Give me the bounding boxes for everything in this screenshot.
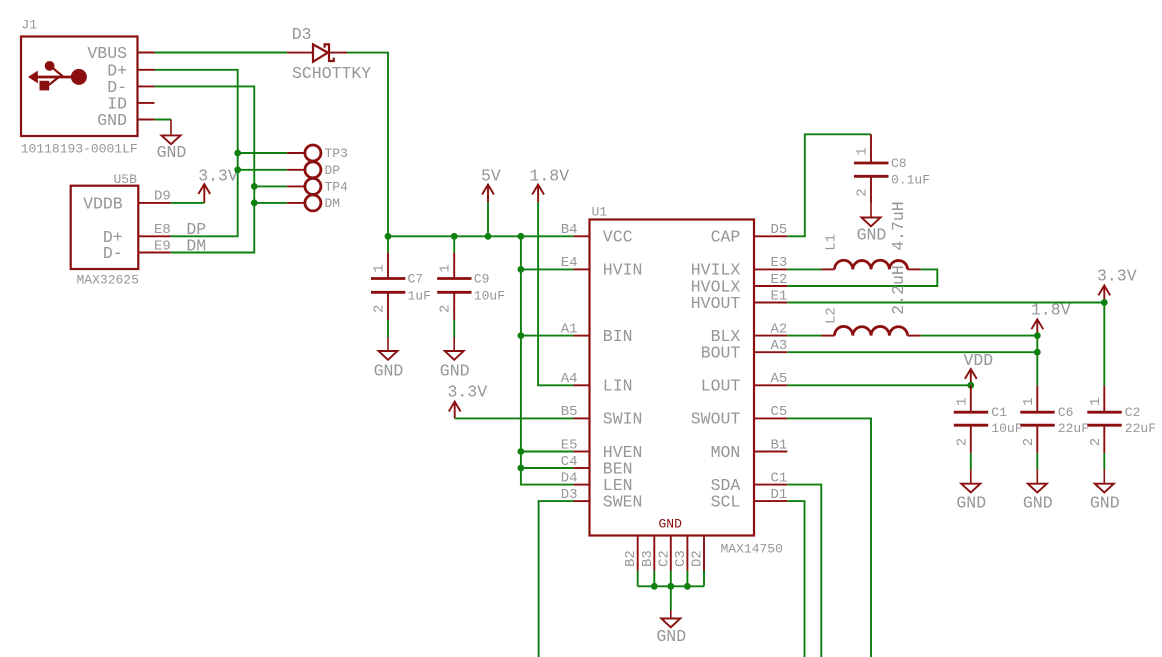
svg-text:LIN: LIN (603, 377, 633, 396)
junction at BEN branch (518, 465, 525, 472)
wire 3.3V rail down to C2 (1103, 303, 1105, 386)
supply symbol 3.3V right (1097, 267, 1137, 303)
connector J1 (21, 18, 155, 157)
svg-text:U1: U1 (592, 205, 608, 220)
svg-text:A1: A1 (561, 321, 578, 337)
svg-text:22uF: 22uF (1125, 421, 1156, 436)
svg-text:D9: D9 (154, 189, 171, 205)
junction bus at C7 (385, 233, 392, 240)
junction gnd bus B3 (651, 583, 658, 590)
svg-text:B4: B4 (561, 222, 578, 238)
wire LOUT to VDD (787, 384, 971, 386)
svg-text:E9: E9 (154, 238, 171, 254)
wire BLX to L2 (787, 335, 821, 337)
wire CAP net D5 to C8 (787, 134, 871, 236)
svg-text:J1: J1 (22, 18, 38, 33)
svg-text:A2: A2 (770, 321, 787, 337)
svg-text:5V: 5V (481, 166, 501, 185)
wire L2 out to 1.8V rail (921, 335, 1038, 337)
svg-text:2.2uH: 2.2uH (889, 265, 908, 315)
svg-text:C1: C1 (991, 405, 1007, 420)
svg-text:3.3V: 3.3V (1097, 267, 1137, 286)
svg-text:MAX14750: MAX14750 (721, 542, 783, 557)
inductor L2 (822, 265, 921, 335)
svg-text:GND: GND (857, 226, 887, 245)
wire SWOUT down (787, 418, 871, 657)
svg-text:SCL: SCL (711, 492, 741, 511)
svg-text:1.8V: 1.8V (530, 166, 570, 185)
svg-text:HVOUT: HVOUT (691, 294, 741, 313)
wire L1 out to HVOLX (787, 269, 937, 286)
wire VBUS from J1 to diode (155, 52, 288, 54)
svg-text:DM: DM (186, 236, 206, 255)
wire branch to BIN (521, 335, 574, 337)
wire 1.8V to U1 LIN (538, 202, 573, 385)
junction gnd bus C3 (684, 583, 691, 590)
wire HVOUT to 3.3V rail (787, 302, 1104, 304)
IC U5B MAX32625 (71, 172, 171, 288)
svg-text:MAX32625: MAX32625 (77, 273, 139, 288)
svg-text:2: 2 (954, 438, 970, 446)
svg-text:VCC: VCC (603, 228, 633, 247)
svg-text:GND: GND (659, 517, 683, 532)
junction 1.8V at BOUT row (1034, 349, 1041, 356)
svg-text:A4: A4 (561, 371, 578, 387)
svg-text:D4: D4 (561, 470, 578, 486)
svg-text:A5: A5 (770, 371, 787, 387)
svg-text:TP3: TP3 (325, 146, 348, 161)
ground symbol under C6 (1023, 469, 1053, 512)
svg-text:GND: GND (97, 111, 127, 130)
ground symbol under U1 (656, 610, 686, 646)
svg-text:B1: B1 (770, 437, 787, 453)
wire SDA down (787, 485, 821, 657)
wire net DP: J1 D+ to U5B D+ (155, 70, 238, 237)
IC U1 MAX14750 (590, 205, 783, 557)
supply symbol 1.8V right (1031, 301, 1071, 336)
svg-text:GND: GND (440, 362, 470, 381)
supply symbol 3.3V at U5B VDDB (198, 166, 238, 203)
svg-text:A3: A3 (770, 338, 787, 354)
svg-text:D1: D1 (770, 487, 787, 503)
svg-text:B2: B2 (623, 550, 639, 567)
svg-text:CAP: CAP (711, 228, 741, 247)
wire branch to HVIN (521, 268, 574, 270)
U1 right pin numbers (770, 222, 787, 503)
svg-text:SWIN: SWIN (603, 410, 643, 429)
U1 left pin names (603, 228, 643, 512)
junction bus at C9 (451, 233, 458, 240)
svg-text:E3: E3 (770, 255, 787, 271)
svg-text:0.1uF: 0.1uF (891, 172, 930, 187)
svg-text:MON: MON (711, 443, 741, 462)
ground symbol under C2 (1090, 469, 1120, 512)
wire SWEN down (539, 501, 574, 657)
svg-text:1uF: 1uF (408, 288, 431, 303)
wire GND bus under U1 (638, 571, 704, 611)
svg-text:DM: DM (325, 196, 341, 211)
svg-text:E1: E1 (770, 288, 787, 304)
ground symbol under C8 (857, 203, 887, 245)
svg-text:4.7uH: 4.7uH (889, 201, 908, 251)
junction 3.3V at HVOUT (1101, 299, 1108, 306)
svg-text:2: 2 (855, 188, 871, 196)
svg-text:GND: GND (956, 494, 986, 513)
junction at HVEN branch (518, 448, 525, 455)
USB logo icon inside J1 (28, 61, 87, 90)
svg-text:E5: E5 (561, 437, 578, 453)
svg-text:SWEN: SWEN (603, 492, 643, 511)
svg-text:L1: L1 (824, 234, 840, 251)
wire HVILX to L1 (787, 268, 821, 270)
svg-text:DP: DP (325, 163, 341, 178)
wire SCL down (787, 501, 804, 657)
ground symbol under J1 (157, 120, 187, 163)
svg-text:GND: GND (157, 143, 187, 162)
wire branch to HVEN (521, 451, 574, 453)
inductor L1 (822, 201, 921, 269)
supply symbol VDD (964, 351, 994, 385)
wire 5V bus to U1 VCC (388, 235, 574, 237)
svg-text:22uF: 22uF (1058, 421, 1089, 436)
svg-text:1: 1 (372, 264, 388, 272)
svg-text:B5: B5 (561, 404, 578, 420)
capacitor C7 (371, 236, 431, 337)
svg-text:D5: D5 (770, 222, 787, 238)
wire 5V net: diode cathode to bus corner (347, 53, 388, 237)
svg-text:2: 2 (1088, 438, 1104, 446)
wire 1.8V rail down to C6 (1036, 336, 1038, 386)
capacitor C1 (954, 385, 1023, 469)
U1 left pin stubs (574, 236, 590, 501)
svg-text:2: 2 (438, 305, 454, 313)
wire VDDB to 3.3V (171, 202, 205, 204)
svg-text:C4: C4 (561, 454, 578, 470)
svg-text:C5: C5 (770, 404, 787, 420)
svg-text:U5B: U5B (114, 172, 138, 187)
svg-text:10118193-0001LF: 10118193-0001LF (21, 142, 138, 157)
svg-text:VDD: VDD (964, 351, 994, 370)
svg-text:C3: C3 (673, 550, 689, 567)
svg-text:VDDB: VDDB (83, 194, 123, 213)
junction on DP net at DP testpoint (234, 166, 241, 173)
capacitor C6 (1020, 386, 1089, 470)
svg-text:B3: B3 (640, 550, 656, 567)
ground symbol under C1 (956, 469, 986, 512)
wire GND net from J1 (155, 119, 172, 121)
svg-text:GND: GND (1023, 494, 1053, 513)
svg-text:2: 2 (1021, 438, 1037, 446)
capacitor C2 (1087, 386, 1156, 470)
U1 bottom pin stubs B2 B3 C2 C3 D2 (638, 536, 704, 571)
svg-text:GND: GND (1090, 494, 1120, 513)
svg-text:C2: C2 (656, 550, 672, 567)
svg-text:E2: E2 (770, 272, 787, 288)
wire 3.3V to U1 SWIN (455, 417, 574, 419)
junction VDD at LOUT row (967, 382, 974, 389)
junction 1.8V at BLX row (1034, 332, 1041, 339)
svg-text:GND: GND (656, 627, 686, 646)
capacitor C8 (854, 134, 930, 203)
svg-text:SCHOTTKY: SCHOTTKY (292, 64, 371, 83)
svg-text:1: 1 (438, 264, 454, 272)
svg-text:1: 1 (1021, 397, 1037, 405)
svg-text:D3: D3 (561, 487, 578, 503)
svg-text:VBUS: VBUS (87, 44, 127, 63)
svg-text:D-: D- (103, 244, 123, 263)
svg-text:1: 1 (954, 397, 970, 405)
U1 right pin names (691, 228, 741, 512)
wire BOUT to 1.8V rail (787, 351, 1037, 353)
test point TP3 (238, 145, 348, 161)
ground symbol under C9 (440, 338, 470, 381)
supply symbol 5V (481, 166, 501, 236)
junction on DP net at TP3 (234, 150, 241, 157)
diode D3 SCHOTTKY (287, 25, 371, 83)
svg-text:HVIN: HVIN (603, 261, 643, 280)
junction bus at 5V arrow (485, 233, 492, 240)
capacitor C9 (437, 236, 505, 337)
test point DM (254, 195, 340, 211)
svg-text:SWOUT: SWOUT (691, 410, 741, 429)
svg-text:D2: D2 (690, 550, 706, 567)
ground symbol under C7 (374, 338, 404, 381)
svg-text:LOUT: LOUT (701, 377, 741, 396)
supply symbol 1.8V top (530, 166, 570, 202)
svg-text:1: 1 (1088, 397, 1104, 405)
svg-text:C6: C6 (1058, 405, 1074, 420)
junction at HVIN branch (518, 266, 525, 273)
wire branch to BEN (521, 467, 574, 469)
U1 bottom pin numbers (623, 550, 705, 567)
svg-text:2: 2 (372, 305, 388, 313)
svg-text:E8: E8 (154, 222, 171, 238)
svg-text:1: 1 (855, 147, 871, 155)
svg-text:BOUT: BOUT (701, 344, 741, 363)
svg-text:E4: E4 (561, 255, 578, 271)
test point TP4 (254, 178, 348, 194)
svg-text:C7: C7 (408, 272, 424, 287)
junction at BIN branch (518, 332, 525, 339)
svg-text:GND: GND (374, 362, 404, 381)
junction gnd bus C2 (667, 583, 674, 590)
junction on DM net at DM testpoint (251, 200, 258, 207)
svg-text:C8: C8 (891, 156, 907, 171)
wire vertical 5V feed to HVIN/BIN/HVEN/BEN/LEN (521, 236, 574, 484)
supply symbol 3.3V at SWIN (448, 383, 488, 419)
svg-text:10uF: 10uF (991, 421, 1022, 436)
junction bus at vertical to HVIN (518, 233, 525, 240)
svg-text:BIN: BIN (603, 327, 633, 346)
svg-text:L2: L2 (824, 307, 840, 324)
U1 right pin stubs (754, 236, 787, 501)
U1 left pin numbers (561, 222, 578, 503)
svg-text:3.3V: 3.3V (448, 383, 488, 402)
svg-text:C9: C9 (474, 272, 490, 287)
svg-text:C2: C2 (1125, 405, 1141, 420)
svg-text:TP4: TP4 (325, 180, 349, 195)
junction on DM net at TP4 (251, 183, 258, 190)
test point DP (238, 162, 341, 178)
svg-text:1.8V: 1.8V (1031, 301, 1071, 320)
svg-text:C1: C1 (770, 470, 787, 486)
svg-text:D3: D3 (292, 25, 312, 44)
svg-text:10uF: 10uF (474, 288, 505, 303)
wire net DM: J1 D- to U5B D- (155, 86, 255, 252)
